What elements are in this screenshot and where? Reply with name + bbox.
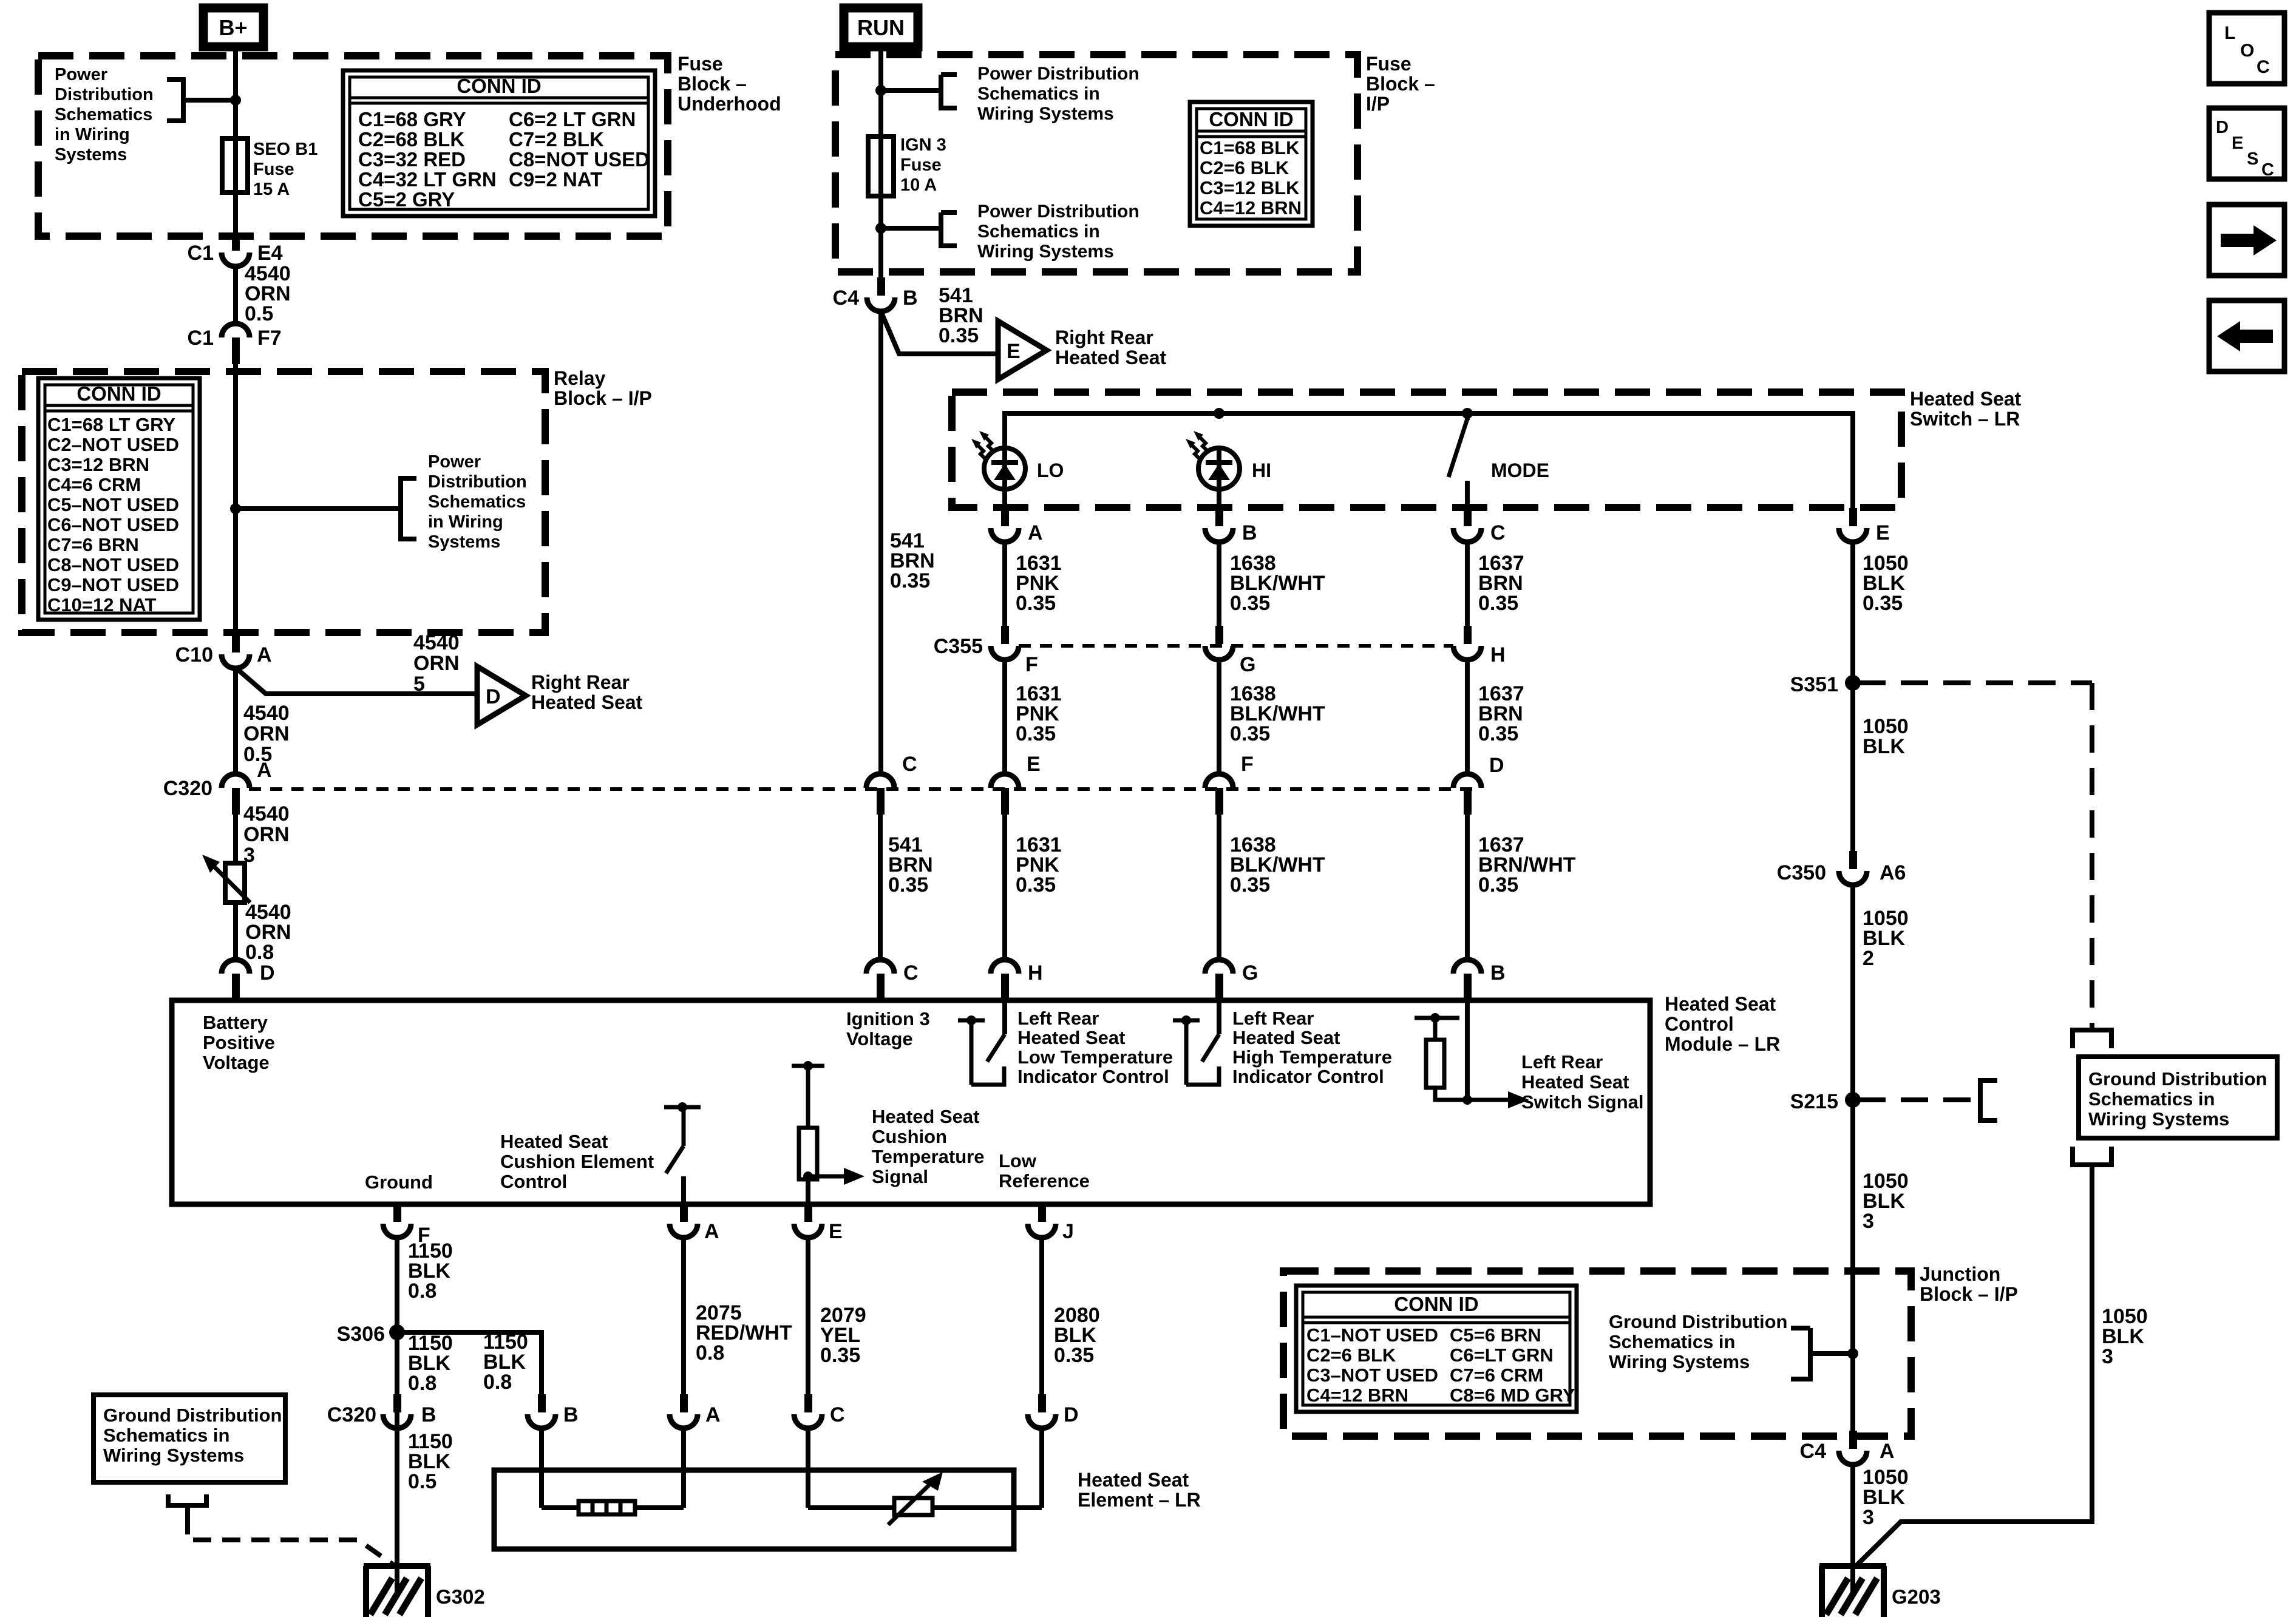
module pin B connector	[1453, 960, 1481, 974]
svg-text:A: A	[704, 1220, 719, 1243]
wire 2080 BLK 0.35	[1039, 1238, 1044, 1395]
LED indicator LO	[984, 448, 1025, 489]
svg-text:G: G	[1242, 961, 1258, 985]
connector pin A element	[680, 1394, 688, 1412]
svg-text:Switch – LR: Switch – LR	[1910, 408, 2020, 430]
svg-text:C4: C4	[833, 286, 860, 310]
svg-text:0.35: 0.35	[1016, 592, 1056, 615]
module pin C connector	[866, 960, 894, 974]
svg-text:Fuse: Fuse	[678, 53, 723, 75]
svg-text:0.35: 0.35	[1016, 873, 1056, 897]
wire element B to A	[539, 1428, 544, 1508]
svg-text:C6=LT GRN: C6=LT GRN	[1450, 1344, 1554, 1366]
svg-text:Right Rear: Right Rear	[1055, 327, 1153, 348]
wire 1050 BLK 0.35	[1850, 542, 1855, 683]
svg-text:0.35: 0.35	[939, 324, 979, 347]
svg-text:C: C	[830, 1403, 845, 1426]
connector pin D element	[1038, 1394, 1046, 1412]
bracket junction note	[1791, 1326, 1810, 1331]
svg-text:E: E	[1027, 753, 1041, 776]
svg-text:F7: F7	[257, 327, 282, 350]
svg-text:E4: E4	[257, 242, 283, 265]
svg-text:H: H	[1028, 961, 1043, 985]
heated seat switch LR dashed box	[952, 392, 1901, 507]
svg-text:Block – I/P: Block – I/P	[1920, 1283, 2018, 1305]
connector pin E switch	[1849, 508, 1857, 526]
svg-text:Heated Seat: Heated Seat	[500, 1131, 608, 1152]
svg-text:C1: C1	[188, 242, 214, 265]
svg-text:0.8: 0.8	[408, 1372, 436, 1395]
wire 1638 BLK/WHT 0.35 mid	[1217, 660, 1221, 775]
svg-text:Voltage: Voltage	[203, 1052, 270, 1073]
svg-text:ORN: ORN	[243, 823, 290, 846]
wire 1631 PNK 0.35 lower	[1002, 810, 1007, 960]
svg-text:C355: C355	[934, 635, 983, 658]
wire 541 BRN 0.35 branch to E triangle	[881, 311, 998, 354]
svg-text:0.8: 0.8	[696, 1341, 724, 1364]
thermistor element symbol	[894, 1498, 932, 1515]
splice S351	[1845, 675, 1861, 691]
svg-text:C320: C320	[327, 1403, 376, 1426]
svg-text:Fuse: Fuse	[253, 160, 294, 179]
bracket to note	[167, 80, 183, 121]
svg-text:Systems: Systems	[428, 532, 500, 552]
svg-text:C5=6 BRN: C5=6 BRN	[1450, 1324, 1541, 1346]
svg-text:Power Distribution: Power Distribution	[977, 64, 1140, 84]
svg-text:C1=68 GRY: C1=68 GRY	[358, 108, 466, 131]
svg-text:D: D	[1489, 754, 1504, 777]
module pin D connector	[222, 960, 250, 974]
svg-text:Heated Seat: Heated Seat	[1232, 1027, 1340, 1048]
ground distribution schematics box right	[2079, 1057, 2277, 1138]
svg-text:C: C	[2261, 160, 2274, 180]
bracket ground distribution left	[1980, 1080, 1997, 1120]
relay block IP dashed box	[22, 371, 545, 632]
svg-text:Signal: Signal	[872, 1166, 928, 1187]
svg-text:Ground: Ground	[365, 1171, 433, 1193]
junction dot relay wire	[230, 503, 241, 514]
bracket upper note	[881, 88, 941, 93]
wire 1050 BLK	[1850, 683, 1855, 856]
connector C355 pin H	[1464, 626, 1472, 644]
svg-text:D: D	[260, 961, 275, 985]
svg-text:Low: Low	[999, 1150, 1037, 1171]
svg-text:C350: C350	[1777, 861, 1826, 884]
branch wire 1150 BLK 0.8	[397, 1332, 542, 1395]
svg-text:C3=32 RED: C3=32 RED	[358, 148, 466, 171]
svg-text:D: D	[1064, 1403, 1079, 1426]
svg-text:C: C	[2257, 57, 2270, 77]
wire pin B to switch signal	[1465, 1000, 1470, 1100]
svg-text:C1: C1	[188, 327, 214, 350]
connector pin C element	[804, 1394, 812, 1412]
svg-text:Voltage: Voltage	[846, 1028, 913, 1049]
svg-text:IGN 3: IGN 3	[900, 135, 946, 155]
svg-text:BLK: BLK	[1863, 735, 1905, 758]
svg-text:0.8: 0.8	[245, 941, 274, 964]
svg-text:J: J	[1062, 1220, 1074, 1243]
variable resistor on battery feed	[225, 863, 245, 903]
junction dot ground distribution	[1847, 1348, 1858, 1359]
svg-text:0.35: 0.35	[820, 1344, 860, 1367]
wire into relay block	[233, 358, 238, 634]
svg-text:Schematics in: Schematics in	[1609, 1331, 1735, 1352]
svg-text:D: D	[486, 685, 501, 708]
dashed line to G302	[188, 1516, 393, 1565]
svg-text:Module – LR: Module – LR	[1665, 1033, 1780, 1055]
wire 1638 BLK/WHT 0.35 lower	[1217, 810, 1221, 960]
svg-text:C7=6 BRN: C7=6 BRN	[47, 534, 139, 555]
junction dot upper	[875, 85, 886, 96]
svg-text:2: 2	[1863, 947, 1874, 970]
svg-text:Heated Seat: Heated Seat	[1055, 347, 1167, 368]
switch low temperature indicator	[958, 1019, 985, 1023]
svg-text:in Wiring: in Wiring	[55, 125, 130, 144]
svg-text:Wiring Systems: Wiring Systems	[1609, 1351, 1750, 1372]
svg-text:C8=6 MD GRY: C8=6 MD GRY	[1450, 1385, 1575, 1406]
connector C355 pin G	[1215, 626, 1223, 644]
wire 4540 ORN 0.8	[233, 903, 238, 960]
svg-text:0.8: 0.8	[483, 1371, 512, 1394]
dashed line S351 to junction block	[1858, 680, 2092, 685]
bracket below ground distribution box	[2073, 1147, 2111, 1165]
svg-text:MODE: MODE	[1491, 459, 1549, 481]
svg-text:B: B	[563, 1403, 579, 1426]
svg-text:I/P: I/P	[1366, 93, 1390, 115]
power symbol RUN	[844, 8, 918, 47]
svg-text:S215: S215	[1790, 1090, 1838, 1113]
CONN ID table fuse block IP	[1190, 102, 1313, 226]
svg-text:in Wiring: in Wiring	[428, 512, 503, 532]
wire 1050 BLK 3 far right	[1855, 1165, 2092, 1567]
svg-text:Power: Power	[428, 452, 481, 472]
svg-text:B+: B+	[219, 15, 247, 40]
svg-text:C8–NOT USED: C8–NOT USED	[47, 554, 179, 575]
svg-text:Schematics in: Schematics in	[103, 1425, 229, 1446]
fuse IGN 3 10A	[868, 137, 894, 196]
svg-text:Schematics: Schematics	[428, 492, 526, 512]
svg-text:ORN: ORN	[413, 652, 460, 675]
svg-text:S306: S306	[337, 1323, 385, 1346]
svg-text:C4=6 CRM: C4=6 CRM	[47, 474, 141, 495]
svg-text:C4=32 LT GRN: C4=32 LT GRN	[358, 168, 497, 191]
svg-text:C10: C10	[175, 643, 213, 666]
legend box arrow previous	[2209, 300, 2284, 371]
svg-text:3: 3	[1863, 1506, 1874, 1529]
wire 1150 BLK 0.8 from ground pin	[395, 1238, 399, 1595]
svg-text:Reference: Reference	[999, 1170, 1090, 1192]
svg-text:0.5: 0.5	[408, 1470, 436, 1493]
svg-text:B: B	[1242, 521, 1257, 544]
svg-text:Positive: Positive	[203, 1032, 275, 1053]
svg-text:C7=2 BLK: C7=2 BLK	[509, 128, 604, 151]
svg-text:Schematics in: Schematics in	[977, 84, 1100, 104]
heated seat control module box	[172, 1000, 1650, 1204]
svg-text:C: C	[1490, 521, 1506, 544]
svg-text:A6: A6	[1880, 861, 1906, 884]
svg-text:Distribution: Distribution	[428, 472, 527, 492]
svg-text:Wiring Systems: Wiring Systems	[103, 1445, 244, 1466]
module pin A connector	[680, 1204, 688, 1222]
svg-text:Switch Signal: Switch Signal	[1521, 1091, 1644, 1113]
wire 2079 YEL 0.35	[806, 1238, 810, 1395]
CONN ID table fuse block underhood	[343, 70, 655, 216]
svg-text:0.35: 0.35	[1478, 592, 1518, 615]
svg-text:Indicator Control: Indicator Control	[1017, 1066, 1169, 1087]
svg-text:E: E	[1007, 340, 1021, 363]
svg-text:A: A	[705, 1403, 721, 1426]
svg-text:Fuse: Fuse	[1366, 53, 1411, 75]
svg-text:Distribution: Distribution	[55, 85, 154, 104]
legend box DESC	[2209, 108, 2284, 179]
dotted line C355 row	[1019, 644, 1453, 648]
svg-text:E: E	[2232, 134, 2243, 153]
junction dot HI	[1214, 408, 1224, 419]
connector C1 pin E4	[232, 232, 240, 251]
svg-text:Wiring Systems: Wiring Systems	[977, 104, 1114, 124]
svg-text:C: C	[902, 753, 917, 776]
svg-text:0.35: 0.35	[1230, 873, 1270, 897]
bracket relay note	[401, 478, 416, 539]
svg-text:C5=2 GRY: C5=2 GRY	[358, 188, 455, 211]
svg-text:C6=2 LT GRN: C6=2 LT GRN	[509, 108, 636, 131]
wire 1631 PNK 0.35 upper	[1002, 542, 1007, 626]
svg-text:B: B	[1490, 961, 1506, 985]
svg-text:3: 3	[1863, 1210, 1874, 1233]
legend box arrow next	[2209, 205, 2284, 276]
svg-text:Power Distribution: Power Distribution	[977, 202, 1140, 222]
connector C4 pin B	[877, 277, 885, 296]
svg-text:Ground Distribution: Ground Distribution	[2088, 1068, 2267, 1090]
triangle E right rear heated seat	[998, 321, 1047, 379]
connector C4 pin A	[1849, 1431, 1857, 1449]
svg-text:O: O	[2240, 41, 2254, 61]
svg-text:Battery: Battery	[203, 1012, 268, 1033]
resistor switch signal	[1415, 1016, 1459, 1020]
svg-text:Heated Seat: Heated Seat	[1665, 993, 1776, 1015]
svg-text:Systems: Systems	[55, 145, 127, 164]
svg-text:Ground Distribution: Ground Distribution	[103, 1405, 282, 1426]
svg-text:Relay: Relay	[554, 367, 606, 389]
connector pin A switch	[1001, 508, 1009, 526]
svg-text:Temperature: Temperature	[872, 1146, 985, 1167]
wire 1050 BLK 3 to G203	[1850, 1465, 1855, 1595]
svg-text:Heated Seat: Heated Seat	[872, 1106, 979, 1127]
module pin F connector	[393, 1204, 401, 1222]
CONN ID table relay block	[38, 378, 200, 620]
svg-text:4540: 4540	[243, 702, 290, 725]
svg-text:RUN: RUN	[857, 15, 905, 40]
svg-text:Block – I/P: Block – I/P	[554, 387, 652, 409]
svg-text:Left Rear: Left Rear	[1521, 1051, 1603, 1073]
svg-text:CONN ID: CONN ID	[457, 75, 541, 97]
svg-text:C4: C4	[1800, 1440, 1827, 1463]
svg-text:0.35: 0.35	[890, 569, 930, 592]
CONN ID table junction block	[1296, 1286, 1577, 1412]
svg-text:Low Temperature: Low Temperature	[1017, 1046, 1173, 1068]
svg-text:CONN ID: CONN ID	[76, 382, 161, 405]
svg-text:Heated Seat: Heated Seat	[531, 691, 643, 713]
svg-text:Control: Control	[1665, 1013, 1734, 1035]
power symbol B+	[203, 8, 263, 47]
svg-text:0.35: 0.35	[1230, 722, 1270, 745]
junction dot MODE	[1462, 408, 1473, 419]
bracket lower note	[881, 226, 941, 231]
svg-text:G302: G302	[436, 1585, 485, 1608]
svg-text:Wiring Systems: Wiring Systems	[2088, 1108, 2229, 1130]
legend box LOC	[2209, 13, 2284, 84]
wire 1050 BLK 3 above junction block	[1850, 1100, 1855, 1436]
connector C320 pin B	[393, 1394, 401, 1412]
svg-text:C3–NOT USED: C3–NOT USED	[1306, 1364, 1438, 1386]
svg-text:D: D	[2216, 118, 2229, 137]
svg-text:C10=12 NAT: C10=12 NAT	[47, 594, 157, 615]
svg-text:E: E	[829, 1220, 843, 1243]
triangle D right rear heated seat	[477, 666, 526, 725]
svg-text:CONN ID: CONN ID	[1394, 1293, 1478, 1315]
wire branch to D triangle 4540 ORN 5	[233, 668, 238, 776]
svg-text:C4=12 BRN: C4=12 BRN	[1200, 197, 1302, 219]
svg-text:0.35: 0.35	[1478, 873, 1518, 897]
ground G203	[1819, 1563, 1886, 1569]
svg-text:ORN: ORN	[243, 722, 290, 745]
svg-text:0.35: 0.35	[1863, 592, 1903, 615]
svg-text:C2=68 BLK: C2=68 BLK	[358, 128, 464, 151]
svg-text:High Temperature: High Temperature	[1232, 1046, 1392, 1068]
junction block IP dashed box	[1283, 1271, 1911, 1436]
svg-text:F: F	[1241, 753, 1254, 776]
wire 1638 BLK/WHT 0.35 upper	[1217, 542, 1221, 626]
svg-text:Indicator Control: Indicator Control	[1232, 1066, 1384, 1087]
svg-text:C6–NOT USED: C6–NOT USED	[47, 514, 179, 535]
svg-text:Heated Seat: Heated Seat	[1078, 1469, 1189, 1491]
svg-text:C: C	[903, 961, 919, 985]
wire 1637 BRN/WHT 0.35 lower	[1465, 810, 1470, 960]
svg-text:F: F	[1025, 653, 1038, 676]
svg-text:L: L	[2224, 23, 2235, 43]
svg-text:Underhood: Underhood	[678, 93, 781, 115]
dotted harness line C320 row	[249, 787, 1481, 791]
module pin J connector	[1038, 1204, 1046, 1222]
svg-text:0.35: 0.35	[1054, 1344, 1094, 1367]
svg-text:Left Rear: Left Rear	[1017, 1008, 1099, 1029]
svg-text:Power: Power	[55, 65, 107, 84]
connector C10 pin A	[232, 634, 240, 653]
svg-text:Fuse: Fuse	[900, 155, 942, 175]
connector pin C switch	[1464, 508, 1472, 526]
heated seat element box	[494, 1470, 1014, 1549]
svg-text:C9=2 NAT: C9=2 NAT	[509, 168, 602, 191]
svg-text:Junction: Junction	[1920, 1263, 2000, 1285]
svg-text:C5–NOT USED: C5–NOT USED	[47, 494, 179, 515]
module pin H connector	[991, 960, 1019, 974]
wire 1637 BRN 0.35 upper	[1465, 542, 1470, 626]
svg-text:C3=12 BRN: C3=12 BRN	[47, 454, 149, 475]
connector pin B element	[538, 1394, 546, 1412]
svg-text:C3=12 BLK: C3=12 BLK	[1200, 177, 1300, 198]
svg-text:C2=6 BLK: C2=6 BLK	[1306, 1344, 1396, 1366]
wire 2075 RED/WHT 0.8	[681, 1238, 686, 1395]
svg-text:Schematics in: Schematics in	[977, 222, 1100, 242]
svg-text:0.35: 0.35	[888, 873, 928, 897]
svg-text:A: A	[1028, 521, 1043, 544]
ground distribution schematics box left	[93, 1395, 285, 1482]
switch MODE	[1465, 413, 1470, 420]
svg-text:C2=6 BLK: C2=6 BLK	[1200, 157, 1289, 178]
svg-text:15 A: 15 A	[253, 180, 290, 199]
svg-text:Block –: Block –	[1366, 73, 1435, 95]
resistor cushion temperature	[792, 1064, 824, 1068]
svg-text:B: B	[903, 286, 918, 310]
svg-text:0.5: 0.5	[245, 302, 273, 325]
junction dot B+ wire	[230, 95, 241, 106]
wire 541 BRN 0.35 lower	[878, 810, 883, 960]
LED indicator HI	[1198, 448, 1240, 489]
svg-text:S: S	[2247, 149, 2258, 169]
svg-text:0.35: 0.35	[1016, 722, 1056, 745]
svg-text:G: G	[1240, 653, 1255, 676]
svg-text:C1=68 BLK: C1=68 BLK	[1200, 137, 1300, 158]
switch high temperature indicator	[1173, 1019, 1200, 1023]
wire 4540 ORN 0.5	[233, 266, 238, 324]
module pin E connector	[804, 1204, 812, 1222]
svg-text:Right Rear: Right Rear	[531, 671, 630, 693]
connector C1 pin F7	[222, 324, 250, 337]
svg-text:H: H	[1490, 643, 1506, 666]
connector C355 pin F	[1001, 626, 1009, 644]
svg-text:C8=NOT USED: C8=NOT USED	[509, 148, 650, 171]
svg-text:C1–NOT USED: C1–NOT USED	[1306, 1324, 1438, 1346]
bracket above ground distribution box	[2073, 1030, 2111, 1048]
wire B+ to fuse	[233, 51, 238, 233]
svg-text:C7=6 CRM: C7=6 CRM	[1450, 1364, 1543, 1386]
switch cushion element control	[664, 1105, 701, 1110]
svg-text:Element – LR: Element – LR	[1078, 1489, 1201, 1511]
svg-text:Heated Seat: Heated Seat	[1017, 1027, 1125, 1048]
svg-text:C9–NOT USED: C9–NOT USED	[47, 574, 179, 595]
svg-text:5: 5	[413, 673, 425, 696]
svg-text:C2–NOT USED: C2–NOT USED	[47, 434, 179, 455]
svg-text:SEO B1: SEO B1	[253, 140, 318, 159]
svg-text:G203: G203	[1892, 1585, 1941, 1608]
svg-text:Ignition 3: Ignition 3	[846, 1008, 930, 1029]
svg-text:4540: 4540	[243, 802, 290, 825]
switch bus wire	[1005, 413, 1853, 516]
svg-text:E: E	[1876, 521, 1890, 544]
svg-text:Heated Seat: Heated Seat	[1910, 388, 2022, 410]
fuse block IP dashed box	[835, 55, 1357, 272]
svg-text:Heated Seat: Heated Seat	[1521, 1071, 1629, 1093]
svg-text:A: A	[257, 643, 272, 666]
svg-text:Block –: Block –	[678, 73, 747, 95]
svg-text:Wiring Systems: Wiring Systems	[977, 242, 1114, 262]
heater element symbol	[579, 1501, 635, 1514]
wire 4540 ORN 3	[233, 810, 238, 863]
connector pin B switch	[1215, 508, 1223, 526]
connector C350 pin A6	[1849, 851, 1857, 869]
svg-text:B: B	[421, 1403, 436, 1426]
svg-text:0.35: 0.35	[1230, 592, 1270, 615]
svg-text:A: A	[257, 759, 272, 782]
svg-text:HI: HI	[1252, 459, 1271, 481]
svg-text:10 A: 10 A	[900, 175, 937, 195]
dashed line S215 to ground distribution	[1858, 1097, 1975, 1102]
svg-text:A: A	[1880, 1440, 1895, 1463]
svg-text:0.8: 0.8	[408, 1280, 436, 1303]
wire RUN to fuse block	[878, 51, 883, 283]
svg-text:C320: C320	[163, 777, 212, 800]
splice S215	[1845, 1092, 1861, 1108]
